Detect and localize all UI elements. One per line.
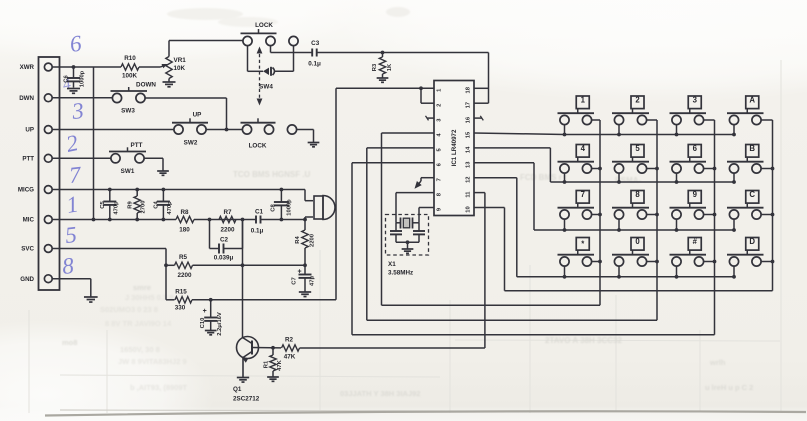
wire keypad column 3 vertical	[714, 120, 716, 335]
svg-text:PTT: PTT	[131, 142, 143, 149]
resistor R9	[127, 190, 146, 220]
svg-text:S02UMO3 0 23 8: S02UMO3 0 23 8	[100, 305, 158, 314]
node MICG junction	[135, 188, 139, 192]
svg-text:SW4: SW4	[259, 84, 273, 91]
ground Q1 emitter	[237, 378, 249, 383]
svg-text:15: 15	[466, 131, 472, 138]
svg-text:3.58MHz: 3.58MHz	[388, 270, 413, 277]
node MIC junction	[241, 218, 245, 222]
svg-text:1K: 1K	[387, 63, 393, 71]
wire R2 to IC pin11	[300, 193, 485, 348]
svg-text:R3: R3	[372, 63, 378, 71]
svg-text:C8: C8	[271, 204, 277, 212]
node MICG junction	[108, 188, 112, 192]
capacitor C8	[271, 190, 293, 220]
svg-text:GND: GND	[20, 276, 34, 283]
wire PTT row	[52, 157, 111, 159]
capacitor C7	[292, 265, 316, 291]
svg-text:100K: 100K	[122, 73, 138, 80]
ground VR1	[163, 82, 176, 87]
resistor R7	[219, 209, 236, 234]
dashed link arrow SW4	[257, 47, 274, 106]
ground C6	[67, 89, 80, 94]
capacitor C1	[251, 209, 264, 235]
svg-text:180: 180	[179, 227, 190, 234]
svg-text:FCD BMS r t: FCD BMS r t	[520, 173, 567, 182]
svg-text:R1: R1	[263, 360, 269, 368]
svg-text:6: 6	[693, 144, 698, 153]
connector pin GND	[20, 275, 52, 283]
capacitor C3	[308, 40, 321, 68]
resistor R4	[295, 220, 316, 266]
svg-text:X1: X1	[388, 261, 396, 268]
capacitor C5	[100, 190, 119, 220]
ground C7	[299, 292, 311, 297]
wire keypad column 1 vertical	[599, 120, 601, 305]
svg-text:9: 9	[693, 190, 698, 199]
svg-text:2700: 2700	[141, 201, 147, 214]
connector pin MIC	[23, 216, 53, 224]
node R3 junction	[381, 51, 385, 55]
node MIC junction	[135, 218, 139, 222]
X1 dashed box	[386, 215, 429, 256]
wire SVC row	[52, 249, 166, 300]
svg-text:47μ: 47μ	[310, 276, 316, 286]
svg-text:C10: C10	[200, 318, 206, 329]
wire pin12 row4	[474, 178, 734, 277]
svg-text:2200: 2200	[177, 272, 192, 279]
svg-text:A: A	[749, 95, 755, 104]
svg-text:17: 17	[466, 102, 472, 108]
svg-text:C4: C4	[154, 201, 160, 209]
resistor R5	[166, 254, 305, 279]
wire pin14 row2	[474, 148, 619, 182]
wire pin7 ground	[416, 178, 434, 187]
wire DWN row	[52, 97, 112, 99]
wire pin2 tie	[421, 88, 434, 103]
svg-text:b ,AIT93, (8909T: b ,AIT93, (8909T	[130, 383, 188, 392]
svg-text:5: 5	[635, 144, 640, 153]
svg-text:LOCK: LOCK	[255, 22, 273, 29]
svg-text:R9: R9	[127, 201, 133, 209]
node MIC junction	[208, 218, 212, 222]
svg-text:13: 13	[466, 161, 472, 168]
svg-text:u lreH u p C 2: u lreH u p C 2	[705, 383, 753, 392]
resistor R2	[282, 337, 300, 361]
svg-text:R10: R10	[124, 55, 136, 62]
wire UP row	[52, 129, 174, 131]
svg-text:2SC2712: 2SC2712	[233, 396, 260, 403]
node MIC junction	[108, 218, 112, 222]
wire VR1 bottom	[168, 79, 170, 82]
wire SW4 right contact	[275, 45, 294, 71]
svg-text:03JJATH Y 38H 3IAJ92: 03JJATH Y 38H 3IAJ92	[340, 389, 420, 398]
svg-text:SW2: SW2	[184, 140, 198, 147]
switch SW1 PTT	[109, 142, 146, 175]
switch SW3 DOWN	[111, 82, 157, 115]
pushbutton key 9	[670, 190, 717, 232]
wire SW4 left contact	[248, 45, 264, 71]
svg-text:0: 0	[635, 237, 640, 246]
pushbutton key 7	[558, 190, 602, 232]
connector pin MICG	[18, 186, 52, 194]
pushbutton key D	[727, 237, 774, 279]
svg-text:R2: R2	[285, 337, 294, 344]
resistor R1	[263, 348, 283, 377]
node MIC junction	[92, 218, 96, 222]
wire vertical XWR to MIC row	[93, 67, 95, 220]
svg-text:SW3: SW3	[121, 108, 135, 115]
ground SW1	[157, 171, 169, 175]
wire keypad row3 common	[677, 229, 735, 231]
svg-text:8 8V TR JAVI9O 14: 8 8V TR JAVI9O 14	[105, 319, 172, 328]
svg-text:C5: C5	[100, 201, 106, 209]
svg-text:XWR: XWR	[20, 64, 35, 71]
svg-text:IC1 LR40972: IC1 LR40972	[451, 129, 458, 166]
label X1	[388, 261, 413, 277]
svg-text:PTT: PTT	[22, 156, 34, 163]
node base junction	[271, 346, 275, 350]
svg-text:#: #	[693, 237, 698, 246]
node MICG junction	[280, 188, 284, 192]
node MIC junction	[303, 218, 307, 222]
connector J1 body	[39, 57, 60, 290]
svg-text:UP: UP	[25, 127, 34, 134]
pushbutton key 4	[558, 144, 602, 184]
svg-text:16: 16	[466, 116, 472, 123]
svg-text:C7: C7	[292, 277, 298, 284]
svg-text:4: 4	[581, 144, 586, 153]
svg-text:12: 12	[466, 176, 472, 182]
capacitor C2	[210, 220, 243, 262]
svg-text:470p: 470p	[113, 201, 119, 215]
svg-text:18: 18	[466, 86, 472, 93]
connector pin SVC	[21, 245, 52, 253]
svg-text:3: 3	[693, 95, 698, 104]
svg-text:+: +	[203, 308, 207, 315]
connector pin DWN	[19, 94, 52, 102]
capacitor C10	[200, 300, 223, 336]
wire SW3 to LOCK row	[145, 98, 227, 130]
capacitor C4	[154, 190, 173, 220]
svg-text:mo8: mo8	[62, 338, 77, 347]
svg-text:2TAVO A 38H 3CC32: 2TAVO A 38H 3CC32	[545, 336, 622, 345]
node R15-C10 junction	[209, 298, 213, 302]
svg-text:UP: UP	[193, 112, 202, 119]
wire collector vertical	[242, 220, 244, 338]
svg-text:14: 14	[466, 146, 472, 153]
svg-text:MIC: MIC	[23, 217, 35, 224]
svg-text:C3: C3	[311, 40, 320, 47]
svg-text:C: C	[749, 190, 755, 199]
capacitor C6	[64, 67, 86, 88]
wire keypad column 4 vertical	[772, 120, 774, 291]
wire MIC row	[52, 219, 305, 221]
transistor Q1	[233, 337, 260, 403]
wire pin18 stub	[474, 87, 489, 89]
node MIC junction	[280, 218, 284, 222]
node MICG junction	[162, 188, 166, 192]
connector pin XWR	[20, 63, 53, 71]
ground LOCK	[308, 143, 320, 147]
mechanical link SW4	[263, 67, 275, 76]
capacitor X1 left	[390, 223, 402, 243]
svg-text:1: 1	[581, 95, 586, 104]
svg-text:1650V, 30 8: 1650V, 30 8	[120, 345, 160, 354]
resistor R10	[121, 55, 139, 80]
wire R10 wiper arrow	[161, 64, 168, 68]
svg-text:TCO BMS HGNSF .U: TCO BMS HGNSF .U	[233, 170, 311, 179]
svg-text:2: 2	[437, 104, 443, 107]
page bottom edge line	[45, 411, 806, 415]
wire C3 to IC pin18	[317, 53, 489, 104]
wire pin3 nc	[426, 116, 435, 121]
svg-text:330: 330	[175, 305, 186, 312]
svg-text:47K: 47K	[284, 354, 296, 361]
svg-text:Q1: Q1	[233, 386, 242, 393]
svg-text:R7: R7	[223, 209, 232, 216]
svg-text:DOWN: DOWN	[136, 82, 156, 89]
svg-text:SVC: SVC	[21, 246, 34, 253]
svg-text:2200: 2200	[310, 234, 316, 247]
pushbutton key 6	[670, 144, 717, 184]
wire base	[252, 347, 281, 349]
svg-text:0.039μ: 0.039μ	[214, 255, 234, 262]
wire pin1 row	[336, 88, 434, 299]
wire pin10 col4	[474, 208, 773, 291]
pushbutton key A	[727, 95, 773, 136]
svg-text:R5: R5	[179, 254, 188, 261]
wire SW2 to LOCK	[206, 129, 243, 131]
pushbutton key B	[727, 144, 774, 184]
pushbutton key *	[558, 238, 602, 279]
node R4/R5/C7 junction	[303, 263, 307, 267]
svg-text:1000p: 1000p	[286, 199, 292, 216]
capacitor X1 right	[413, 223, 425, 243]
svg-text:2: 2	[635, 95, 640, 104]
wire pin17 stub	[474, 102, 489, 104]
pushbutton key 2	[612, 95, 657, 136]
switch SW4 LOCK upper	[241, 22, 299, 46]
contact circle LOCK lower right	[287, 125, 296, 134]
svg-text:10K: 10K	[174, 65, 186, 72]
svg-text:0.1μ: 0.1μ	[251, 228, 264, 235]
wire pin5 loop	[367, 148, 657, 320]
svg-text:10: 10	[466, 206, 472, 212]
svg-text:B: B	[749, 144, 755, 153]
svg-text:C6: C6	[64, 75, 70, 83]
wire XWR row	[52, 66, 160, 68]
wire pin13 row3	[474, 163, 677, 230]
svg-text:470p: 470p	[167, 201, 173, 215]
wire keypad column 2 vertical	[656, 120, 658, 320]
pushbutton key 1	[558, 95, 601, 136]
svg-text:D: D	[749, 237, 755, 246]
IC U1 body	[434, 81, 474, 216]
svg-text:SW1: SW1	[121, 168, 135, 175]
handwritten blue pin numbers	[61, 31, 85, 279]
svg-text:R15: R15	[175, 289, 187, 296]
node R5-collector junction	[241, 263, 245, 267]
wire LOCK to ground	[297, 130, 314, 143]
wire pin6 loop	[352, 163, 715, 335]
svg-text:3: 3	[70, 98, 85, 124]
svg-text:8: 8	[635, 190, 640, 199]
wire pin4 loop	[382, 133, 601, 305]
node SVC-R5 junction	[164, 263, 168, 267]
speaker MIC element	[305, 196, 335, 220]
pushbutton key 5	[612, 144, 659, 184]
resistor R3	[372, 53, 393, 78]
svg-text:R8: R8	[180, 209, 189, 216]
wire MICG row	[52, 190, 305, 201]
ground GND pin	[84, 297, 98, 302]
wire GND row	[52, 279, 91, 297]
svg-text:VR1: VR1	[174, 57, 187, 64]
ground R3	[377, 78, 389, 82]
svg-text:47K: 47K	[277, 359, 283, 370]
connector pin UP	[25, 126, 52, 134]
svg-text:wrlh: wrlh	[709, 358, 726, 367]
pushbutton key C	[727, 190, 774, 232]
wire keypad row1 common	[565, 134, 735, 136]
connector pin PTT	[22, 154, 52, 162]
svg-text:MICG: MICG	[18, 187, 34, 194]
node MIC junction	[162, 218, 166, 222]
resistor R15	[166, 289, 336, 312]
ground C10	[205, 331, 217, 335]
pushbutton key 3	[670, 95, 715, 136]
node XWR-C6 junction	[72, 65, 76, 69]
svg-text:7: 7	[581, 190, 585, 199]
ground X1	[402, 249, 414, 253]
bleed-through text	[62, 7, 753, 398]
svg-text:2200: 2200	[220, 227, 235, 234]
svg-text:11: 11	[466, 191, 472, 198]
svg-text:7: 7	[437, 178, 443, 181]
wire pin15 row1	[474, 133, 565, 135]
svg-text:0.1μ: 0.1μ	[308, 61, 321, 68]
pushbutton key 8	[612, 190, 659, 232]
svg-text:R4: R4	[295, 236, 301, 244]
wire pin8 to crystal	[396, 193, 434, 223]
svg-text:smre: smre	[133, 283, 151, 292]
ground pin7 arrow	[415, 181, 422, 189]
svg-text:JW 8 9VITA83HJ2 9: JW 8 9VITA83HJ2 9	[118, 357, 187, 366]
switch LOCK lower	[241, 118, 276, 149]
svg-text:C1: C1	[255, 209, 264, 216]
node pin1-pin2 tie	[419, 86, 423, 90]
wire keypad row2 common	[619, 181, 734, 183]
wire SW1 to ground	[144, 158, 163, 170]
ground R1	[267, 377, 279, 381]
svg-text:1000p: 1000p	[80, 70, 86, 87]
potentiometer VR1	[166, 57, 186, 79]
pushbutton key 0	[612, 237, 659, 279]
wire X1 rail	[396, 240, 419, 248]
svg-text:DWN: DWN	[19, 95, 34, 102]
node SW3/SW2 junction	[225, 128, 229, 132]
IC pin numbers	[437, 86, 472, 212]
svg-text:2.2μ/16V: 2.2μ/16V	[217, 312, 223, 336]
svg-text:C2: C2	[220, 237, 229, 244]
wire SW4 to C3	[271, 45, 313, 52]
svg-text:+: +	[297, 269, 301, 276]
wire pin9 to crystal	[419, 208, 434, 223]
wire pin16 nc	[474, 116, 483, 121]
switch SW2 UP	[172, 112, 208, 147]
wire VR1 top	[169, 41, 244, 57]
crystal X1	[396, 218, 419, 229]
svg-text:LOCK: LOCK	[249, 143, 267, 150]
resistor R8	[176, 209, 194, 234]
pushbutton key #	[670, 237, 717, 279]
